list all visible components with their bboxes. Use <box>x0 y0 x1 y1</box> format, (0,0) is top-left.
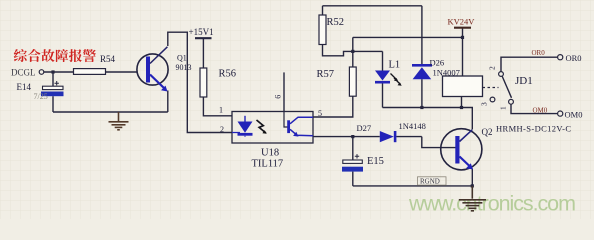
relay JD1 coil <box>443 76 483 97</box>
wire: jog down to Q2 base <box>422 137 456 148</box>
wire: DCGL terminal to R54 <box>44 71 74 73</box>
svg-text:D26: D26 <box>430 57 445 67</box>
capacitor E15 <box>342 154 384 171</box>
optocoupler U18 TIL117 <box>219 95 322 170</box>
svg-text:6: 6 <box>274 95 283 99</box>
wire: RGND rail to Q2 emitter <box>353 185 473 187</box>
wire: U18 pin 6 stub <box>283 72 285 111</box>
svg-text:Q1: Q1 <box>177 54 187 63</box>
svg-text:OR0: OR0 <box>532 49 546 57</box>
svg-text:+15V1: +15V1 <box>189 27 214 37</box>
svg-text:R52: R52 <box>327 17 345 28</box>
node: E15 top junction <box>351 135 354 138</box>
U18 light arrow <box>257 120 266 133</box>
wire: D26 anode down to node B <box>421 79 423 107</box>
wire: KV24V rail <box>353 36 463 38</box>
svg-text:HRMH-S-DC12V-C: HRMH-S-DC12V-C <box>496 123 571 133</box>
svg-text:OM0: OM0 <box>533 107 548 115</box>
relay armature <box>502 77 511 98</box>
wire: node A vertical through to R57 top <box>352 37 354 67</box>
svg-text:E14: E14 <box>17 82 32 92</box>
svg-text:3: 3 <box>480 102 489 106</box>
svg-text:U18: U18 <box>261 148 279 159</box>
wire: U18 pin 5 to R57 bottom <box>313 96 353 117</box>
svg-text:Q2: Q2 <box>482 127 493 137</box>
net label RGND <box>418 177 447 185</box>
wire: top rail R52 to D26 <box>323 5 422 7</box>
svg-text:E15: E15 <box>367 156 384 167</box>
wire: R54 to Q1 base <box>106 71 138 73</box>
U18 phototransistor <box>284 112 288 128</box>
svg-text:JD1: JD1 <box>515 75 533 87</box>
node: DCGL/E14/R54 junction <box>51 70 54 73</box>
wire: E14 top lead <box>52 72 54 86</box>
wire: relay coil bottom lead <box>461 97 463 108</box>
resistor R56 <box>200 68 207 97</box>
wire: Q1 collector up, over, and down to U18 pin 2 <box>168 32 232 132</box>
node A junction R52/R57/L1/rail <box>351 50 354 53</box>
wire: L1 cathode lead <box>382 83 384 107</box>
svg-text:R56: R56 <box>219 69 237 80</box>
node B: relay coil bottom junction <box>460 106 463 109</box>
svg-text:2: 2 <box>220 125 224 134</box>
resistor R57 <box>349 67 356 96</box>
LED L1 <box>375 60 402 86</box>
svg-text:OR0: OR0 <box>566 53 582 63</box>
wire: relay contact 1 to OM0 <box>511 104 557 113</box>
svg-text:DCGL: DCGL <box>11 67 36 77</box>
wire: Q1 emitter lead down <box>167 91 169 113</box>
relay contact 3 <box>490 97 495 102</box>
wire: E15 top lead <box>352 137 354 160</box>
diode D27 1N4148 <box>357 121 426 142</box>
svg-text:TIL117: TIL117 <box>252 159 284 170</box>
svg-text:L1: L1 <box>389 60 401 71</box>
node B: D26 anode junction <box>420 106 423 109</box>
wire: E15 bottom lead <box>352 172 354 186</box>
ground (Q2 emitter) <box>459 186 486 211</box>
relay dashed link <box>483 87 499 89</box>
terminal DCGL <box>39 70 44 75</box>
svg-text:7/25: 7/25 <box>34 92 48 101</box>
relay contact 2 <box>499 72 504 77</box>
node: Q2 emitter / RGND junction <box>471 184 474 187</box>
svg-text:1: 1 <box>499 106 508 110</box>
diode D26 1N4007 <box>412 57 460 79</box>
wire: KV24V stem down to relay coil <box>462 28 464 76</box>
node: KV24V rail junction <box>461 36 464 39</box>
wire: Q2 emitter lead down <box>471 169 473 186</box>
wire: L1 anode lead <box>382 51 384 70</box>
svg-text:R57: R57 <box>317 69 335 80</box>
wire: +15V1 stem to R56 <box>202 38 204 68</box>
resistor R52 <box>319 15 326 45</box>
transistor Q1 9013 <box>137 47 192 92</box>
svg-text:1: 1 <box>219 105 223 114</box>
svg-text:www.cntronics.com: www.cntronics.com <box>408 192 576 216</box>
terminal OR0 <box>558 55 563 60</box>
transistor Q2 <box>441 127 493 170</box>
resistor R54 <box>74 69 106 75</box>
svg-text:KV24V: KV24V <box>448 17 476 27</box>
svg-text:9013: 9013 <box>176 63 192 72</box>
wire: ground rail from E14 to Q1 emitter <box>53 111 168 113</box>
wire: E14 bottom lead <box>52 96 54 112</box>
relay contact 1 <box>509 99 514 104</box>
wire: node B rail L1 to Q2 collector <box>383 108 473 130</box>
svg-text:OM0: OM0 <box>565 110 583 120</box>
terminal OM0 <box>558 111 563 116</box>
svg-text:R54: R54 <box>100 54 116 64</box>
svg-text:RGND: RGND <box>420 178 440 186</box>
wire: R52 top stub <box>322 6 324 15</box>
U18 LED <box>244 116 246 122</box>
svg-text:1N4148: 1N4148 <box>399 121 426 131</box>
svg-text:5: 5 <box>318 109 322 118</box>
wire: D26 cathode vertical <box>421 6 423 65</box>
wire: R56 bottom to U18 pin 1 <box>203 97 232 116</box>
svg-text:2: 2 <box>488 66 497 70</box>
wire: R52 bottom zigzag to node A <box>323 45 383 56</box>
wire: D27 cathode to jog <box>396 136 422 138</box>
ground (E14/Q1 emitter) <box>109 112 129 130</box>
wire: U18 pin 4 to D27 anode <box>313 136 380 138</box>
label 综合故障报警 (red) <box>14 49 96 62</box>
wire: relay contact 2 to OR0 <box>501 57 557 71</box>
svg-text:D27: D27 <box>357 123 372 133</box>
